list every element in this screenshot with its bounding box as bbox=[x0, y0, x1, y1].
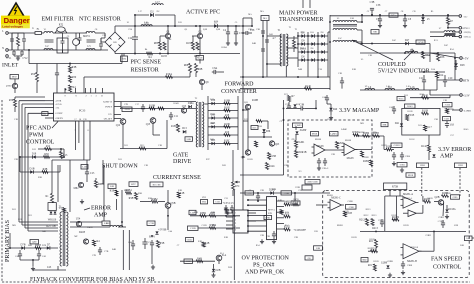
svg-text:C1B: C1B bbox=[14, 119, 19, 121]
svg-text:C1B: C1B bbox=[215, 201, 220, 204]
svg-text:PGM1: PGM1 bbox=[298, 141, 306, 144]
wire U6 left pin bbox=[248, 230, 267, 232]
IC U1 PWM/PFC controller bbox=[54, 93, 115, 121]
svg-text:+12v: +12v bbox=[463, 15, 469, 18]
wire top tie bbox=[12, 32, 24, 34]
wire bbox=[14, 89, 16, 93]
svg-text:C25: C25 bbox=[90, 172, 95, 175]
wire bbox=[392, 219, 397, 221]
svg-text:C5B8: C5B8 bbox=[347, 201, 353, 203]
svg-text:S1A: S1A bbox=[220, 252, 224, 255]
svg-text:R5B: R5B bbox=[110, 190, 115, 193]
wire common return bbox=[360, 89, 430, 91]
wire bbox=[167, 208, 169, 230]
svg-text:L5C: L5C bbox=[338, 38, 342, 40]
wire snubber rail R bbox=[237, 96, 239, 150]
wire +5V rail bbox=[360, 52, 430, 54]
svg-text:R21: R21 bbox=[18, 219, 22, 221]
resistor R185 bbox=[224, 107, 231, 112]
svg-text:R51B: R51B bbox=[343, 211, 349, 213]
wire bbox=[51, 190, 53, 194]
diode bbox=[155, 231, 158, 234]
junction bbox=[317, 43, 319, 45]
wire bbox=[433, 243, 435, 251]
svg-text:D21: D21 bbox=[296, 104, 300, 106]
current transformer CT bbox=[73, 39, 80, 46]
resistor R11G bbox=[446, 109, 449, 114]
ground CY bbox=[16, 56, 20, 60]
svg-text:EMI FILTER: EMI FILTER bbox=[42, 17, 74, 23]
wire D2 branch left bbox=[134, 15, 136, 26]
svg-text:R11B: R11B bbox=[407, 111, 413, 113]
svg-text:M78-A: M78-A bbox=[268, 209, 275, 212]
svg-text:D1B: D1B bbox=[30, 167, 35, 170]
svg-text:W11: W11 bbox=[12, 209, 16, 211]
svg-text:R1B4: R1B4 bbox=[221, 47, 227, 49]
wire bias vert 1 bbox=[51, 160, 53, 190]
svg-text:R7A: R7A bbox=[391, 14, 396, 17]
junction bbox=[371, 43, 373, 45]
wire secondary return bbox=[240, 76, 330, 78]
svg-text:WTC: WTC bbox=[131, 183, 137, 186]
wire sense rail bbox=[283, 100, 285, 175]
transformer bbox=[60, 212, 68, 266]
wire bbox=[452, 36, 459, 38]
svg-text:C43: C43 bbox=[47, 266, 52, 269]
junction bbox=[297, 76, 299, 78]
svg-text:CONVERTER: CONVERTER bbox=[221, 89, 257, 95]
capacitor C4B3 bbox=[19, 250, 21, 254]
svg-text:R117: R117 bbox=[426, 126, 432, 129]
diode bbox=[400, 123, 403, 126]
wire NTC lead bbox=[55, 31, 57, 34]
wire bbox=[416, 212, 423, 214]
wire sec rail 4 bbox=[327, 32, 329, 67]
boxed label MA bbox=[261, 16, 269, 21]
junction bbox=[69, 63, 71, 65]
svg-text:PC33: PC33 bbox=[79, 110, 86, 113]
svg-text:R15B: R15B bbox=[247, 159, 253, 161]
wire Q2 gate bbox=[192, 35, 197, 37]
svg-text:R1B: R1B bbox=[224, 237, 229, 239]
diode bbox=[262, 129, 265, 132]
svg-text:54B: 54B bbox=[42, 231, 46, 233]
inductor L2b bbox=[44, 49, 53, 50]
svg-text:C13B: C13B bbox=[201, 225, 207, 227]
resistor R219 bbox=[373, 264, 376, 271]
svg-text:MG0B: MG0B bbox=[315, 139, 322, 141]
svg-text:R12: R12 bbox=[46, 145, 51, 148]
capacitor +C3B8 bbox=[402, 261, 404, 264]
wire bias line 4 bbox=[28, 230, 58, 232]
resistor R21B2 bbox=[392, 216, 400, 221]
svg-text:R14: R14 bbox=[439, 74, 444, 77]
svg-text:R2B9: R2B9 bbox=[363, 157, 368, 159]
diode D18 bbox=[211, 99, 216, 105]
inductor L2a bbox=[44, 32, 53, 34]
capacitor C2B4 bbox=[273, 231, 275, 234]
capacitor C4B2 bbox=[393, 106, 395, 109]
op-amp bbox=[328, 200, 345, 211]
terminal +3.3VSB bbox=[460, 109, 463, 112]
wire CY tie bbox=[14, 55, 22, 57]
wire bbox=[95, 49, 101, 51]
wire U6 right pin bbox=[277, 222, 285, 224]
junction bbox=[422, 52, 424, 54]
resistor R68 bbox=[189, 64, 192, 73]
capacitor C21 bbox=[423, 75, 425, 80]
resistor R44 bbox=[93, 240, 96, 246]
inductor L3a bbox=[86, 32, 95, 34]
diode D52 bbox=[54, 212, 57, 215]
resistor R26 bbox=[255, 141, 258, 147]
transistor bbox=[12, 83, 17, 88]
svg-text:C5B: C5B bbox=[444, 118, 449, 121]
wire U6 left pin bbox=[248, 220, 267, 222]
wire pin feed 1 bbox=[19, 100, 45, 102]
wire bbox=[83, 77, 85, 93]
capacitor C3B2 bbox=[318, 158, 320, 161]
wire to fan bbox=[472, 237, 474, 239]
wire bbox=[315, 100, 317, 108]
boxed label +C3 bbox=[245, 191, 254, 195]
wire bbox=[437, 79, 460, 81]
svg-text:R2B7: R2B7 bbox=[381, 145, 387, 147]
wire snubber row bbox=[208, 143, 238, 145]
svg-text:R19B: R19B bbox=[252, 99, 258, 102]
capacitor C2B0 bbox=[401, 152, 403, 155]
capacitor C5 bbox=[235, 26, 237, 32]
wire bbox=[189, 63, 191, 65]
wire U6 left pin bbox=[248, 199, 267, 201]
svg-text:R4B: R4B bbox=[252, 43, 257, 45]
wire bbox=[232, 150, 234, 182]
svg-text:R21 11B: R21 11B bbox=[46, 225, 55, 228]
junction bbox=[233, 215, 235, 217]
resistor R18 bbox=[224, 114, 230, 119]
svg-text:C11: C11 bbox=[174, 115, 179, 118]
junction bbox=[167, 215, 169, 217]
wire bbox=[357, 41, 362, 43]
svg-text:R2B6: R2B6 bbox=[359, 132, 365, 134]
resistor R185 bbox=[196, 42, 199, 50]
svg-text:R4B: R4B bbox=[278, 200, 283, 202]
junction bbox=[436, 71, 438, 73]
svg-text:C1B: C1B bbox=[158, 145, 163, 147]
wire bbox=[330, 111, 332, 115]
boxed label +R1B bbox=[122, 107, 132, 112]
svg-text:R142: R142 bbox=[421, 145, 427, 148]
boxed label C13B bbox=[188, 226, 199, 230]
transistor U5A bbox=[76, 221, 81, 226]
wire U6 left pin bbox=[248, 204, 267, 206]
resistor R6B bbox=[195, 64, 198, 73]
svg-text:C1B: C1B bbox=[368, 55, 373, 57]
capacitor C24 (bulk) bbox=[134, 26, 136, 37]
wire bbox=[251, 18, 253, 26]
svg-text:C21: C21 bbox=[419, 77, 424, 80]
wire bias line 1 bbox=[19, 221, 58, 223]
capacitor C2B3 bbox=[257, 193, 259, 196]
wire IC bottom pin bbox=[75, 121, 77, 128]
svg-text:R3B: R3B bbox=[194, 212, 199, 214]
svg-text:L9: L9 bbox=[365, 86, 367, 88]
svg-text:R21B: R21B bbox=[427, 198, 433, 200]
svg-text:R1B: R1B bbox=[180, 192, 185, 195]
transformer bbox=[280, 34, 288, 66]
op-amp MG08 B bbox=[342, 144, 358, 156]
svg-text:Q5B: Q5B bbox=[171, 202, 176, 205]
diode D2 bbox=[150, 10, 154, 17]
wire bbox=[201, 85, 203, 90]
resistor R3MG bbox=[352, 131, 359, 136]
svg-text:R183: R183 bbox=[161, 55, 167, 58]
resistor R5B4 bbox=[157, 241, 160, 248]
wire bbox=[36, 64, 38, 73]
svg-text:+C1B: +C1B bbox=[444, 104, 450, 107]
svg-text:Q1: Q1 bbox=[185, 29, 188, 31]
wire bbox=[357, 21, 362, 23]
svg-text:C3B: C3B bbox=[299, 104, 304, 107]
boxed label BP bbox=[42, 112, 48, 116]
svg-text:D13: D13 bbox=[182, 127, 187, 130]
svg-text:MA: MA bbox=[263, 17, 267, 20]
wire bbox=[218, 25, 240, 27]
wire bbox=[213, 264, 215, 269]
junction bbox=[225, 215, 227, 217]
wire 5VSB row bbox=[190, 215, 240, 217]
wire Q2 drain bbox=[199, 26, 201, 33]
svg-text:D2B: D2B bbox=[272, 189, 277, 191]
wire bbox=[104, 33, 106, 38]
wire lower tie bbox=[84, 76, 122, 78]
svg-text:G2B5: G2B5 bbox=[453, 197, 458, 199]
wire bbox=[53, 32, 55, 34]
ground C7 bbox=[378, 23, 382, 27]
outer border left (dashed) bbox=[1, 100, 3, 282]
svg-text:R11B: R11B bbox=[422, 110, 428, 113]
svg-text:+3.5MB: +3.5MB bbox=[463, 110, 472, 113]
wire bbox=[103, 190, 105, 221]
junction U6 pin bbox=[247, 225, 249, 227]
diode D15 bbox=[188, 102, 193, 108]
resistor R12 bbox=[45, 145, 52, 150]
wire half-bridge leg B bbox=[266, 21, 268, 78]
wire bbox=[33, 269, 66, 271]
diode bbox=[432, 154, 435, 157]
svg-text:R12: R12 bbox=[32, 149, 36, 151]
diode D13 bbox=[182, 127, 187, 133]
svg-text:D1B: D1B bbox=[210, 114, 215, 116]
diode D8 bbox=[301, 31, 305, 37]
capacitor C2 bbox=[22, 38, 26, 40]
terminal RTN bbox=[459, 27, 462, 30]
junction bbox=[251, 25, 253, 27]
wire D2 branch right bbox=[174, 15, 176, 26]
diode bbox=[295, 131, 298, 134]
svg-text:C7B: C7B bbox=[124, 104, 129, 106]
wire bridge - bbox=[114, 52, 116, 54]
svg-text:R10B: R10B bbox=[149, 105, 155, 108]
resistor R6B3 bbox=[35, 244, 42, 249]
wire bbox=[452, 31, 459, 33]
junction U6 pin bbox=[247, 215, 249, 217]
boxed label C4B2 bbox=[291, 201, 300, 205]
resistor R142 bbox=[428, 145, 431, 152]
junction bbox=[242, 25, 244, 27]
diode bbox=[321, 50, 324, 53]
ground C4 bbox=[226, 41, 230, 45]
svg-text:J3B3: J3B3 bbox=[458, 164, 464, 167]
terminal E bbox=[6, 55, 9, 58]
transistor Q24 bbox=[245, 150, 250, 155]
ground 5VSB bbox=[151, 265, 155, 269]
label FAN SPEED CONTROL bbox=[431, 257, 463, 271]
wire Q1 drain bbox=[167, 26, 169, 33]
svg-text:MGB1-A: MGB1-A bbox=[403, 193, 413, 196]
resistor R186 bbox=[224, 123, 231, 128]
boxed label MOD bbox=[10, 75, 19, 79]
wire bbox=[430, 52, 455, 54]
svg-text:RTN: RTN bbox=[463, 79, 470, 83]
wire bbox=[437, 52, 439, 54]
wire bbox=[62, 33, 64, 38]
wire IC bottom pin bbox=[89, 121, 91, 128]
diode D19 bbox=[211, 113, 216, 119]
wire bbox=[375, 248, 377, 252]
inductor L7a bbox=[444, 31, 455, 32]
capacitor C26 (divider) bbox=[261, 30, 265, 32]
junction bbox=[134, 14, 136, 16]
svg-text:R3B: R3B bbox=[72, 66, 77, 69]
svg-text:R1C R8: R1C R8 bbox=[153, 183, 162, 186]
resistor R58 bbox=[437, 53, 446, 61]
svg-text:+3.3V: +3.3V bbox=[463, 95, 470, 98]
svg-text:R71: R71 bbox=[284, 94, 288, 96]
junction bbox=[317, 35, 319, 37]
resistor R6B2 bbox=[95, 181, 105, 188]
junction bbox=[63, 156, 65, 158]
wire cluster tie 1 bbox=[307, 67, 309, 77]
svg-text:R18: R18 bbox=[225, 114, 230, 117]
svg-text:D28: D28 bbox=[460, 64, 465, 67]
boxed label J3B3 bbox=[455, 163, 467, 168]
resistor R14 bbox=[436, 72, 445, 78]
coupled core bbox=[445, 33, 456, 35]
wire U6 left pin bbox=[248, 215, 267, 217]
diode bbox=[386, 265, 389, 268]
wire bbox=[121, 54, 123, 64]
capacitor C38 bbox=[243, 32, 246, 34]
svg-text:Q1B: Q1B bbox=[216, 29, 221, 31]
junction bbox=[19, 156, 21, 158]
wire bbox=[192, 36, 194, 42]
resistor R7D bbox=[288, 96, 291, 102]
wire PFC top rail bbox=[115, 25, 240, 27]
boxed label +C5B bbox=[147, 221, 155, 225]
wire bbox=[53, 49, 57, 51]
svg-text:R11G: R11G bbox=[448, 108, 454, 111]
wire bbox=[23, 32, 25, 34]
svg-text:AND PWR_OK: AND PWR_OK bbox=[245, 270, 285, 276]
boxed label +P2B1 bbox=[397, 163, 407, 167]
wire bbox=[243, 120, 248, 122]
resistor R1B2 bbox=[202, 242, 205, 247]
boxed label C5B bbox=[443, 117, 451, 121]
boxed label +C5B8 bbox=[346, 205, 357, 210]
op-amp bbox=[401, 244, 422, 259]
capacitor C38b bbox=[371, 10, 373, 15]
wire bbox=[243, 17, 252, 19]
wire bbox=[429, 90, 431, 95]
svg-text:AMP: AMP bbox=[94, 213, 108, 219]
svg-text:R11: R11 bbox=[418, 125, 422, 127]
wire fan in 1 bbox=[385, 195, 403, 197]
diode D7B bbox=[21, 243, 26, 249]
thermistor RT3 bbox=[121, 56, 128, 62]
wire bbox=[121, 190, 123, 227]
wire bbox=[120, 102, 122, 109]
wire bbox=[62, 50, 64, 53]
wire bbox=[14, 97, 16, 99]
wire IC left pin 3 bbox=[45, 106, 54, 108]
arrow to coupled inductor (left) bbox=[352, 40, 393, 60]
boxed label W15 bbox=[397, 97, 405, 101]
svg-text:18A: 18A bbox=[310, 31, 314, 34]
wire U6 right pin bbox=[277, 217, 285, 219]
junction bbox=[199, 53, 201, 55]
svg-text:4 CLO: 4 CLO bbox=[56, 104, 62, 106]
resistor R50 bbox=[36, 73, 39, 82]
wire Q2 source bbox=[199, 39, 201, 54]
svg-text:C2B: C2B bbox=[260, 235, 265, 237]
svg-text:C2B: C2B bbox=[294, 237, 299, 239]
junction bbox=[307, 35, 309, 37]
svg-text:T1: T1 bbox=[289, 27, 291, 29]
boxed label M8 bbox=[371, 30, 379, 34]
wire shutdown row bbox=[20, 156, 64, 158]
arrow node bbox=[235, 181, 241, 184]
wire bbox=[199, 59, 201, 64]
resistor R2B4 bbox=[370, 160, 373, 166]
wire bbox=[95, 32, 105, 34]
wire bbox=[430, 36, 444, 38]
svg-text:R5B: R5B bbox=[129, 197, 134, 200]
wire bbox=[63, 149, 65, 157]
svg-text:R30: R30 bbox=[72, 76, 77, 79]
svg-text:R186: R186 bbox=[224, 123, 230, 126]
svg-text:R21B: R21B bbox=[403, 225, 409, 227]
junction bbox=[297, 35, 299, 37]
wire bbox=[286, 107, 299, 109]
svg-text:RY1B: RY1B bbox=[408, 114, 415, 117]
svg-text:MGB1-A: MGB1-A bbox=[404, 197, 413, 200]
svg-text:D40: D40 bbox=[333, 108, 338, 111]
bridge rectifier BR1 bbox=[105, 32, 125, 52]
wire bbox=[430, 53, 460, 58]
junction bbox=[297, 43, 299, 45]
IC bbox=[233, 210, 248, 233]
resistor RY1B bbox=[406, 115, 409, 121]
capacitor C11 (polarized) bbox=[170, 112, 172, 115]
junction bbox=[433, 230, 435, 232]
wire protection top row bbox=[240, 192, 330, 194]
svg-text:MOD: MOD bbox=[12, 77, 17, 79]
wire bbox=[452, 109, 460, 111]
junction bbox=[361, 21, 363, 23]
wire bbox=[140, 201, 151, 203]
wire bbox=[58, 148, 64, 150]
